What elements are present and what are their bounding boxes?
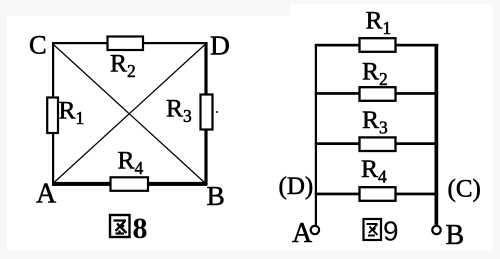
caption 图8 glyph — [110, 215, 130, 237]
resistor R1 (box on left edge) — [47, 98, 58, 134]
svg-text:B: B — [446, 220, 465, 251]
wire D-B (right edge of square) — [204, 42, 207, 185]
wire right rail (bold) — [435, 44, 439, 226]
wire left rail — [315, 44, 317, 226]
diagonal wire A-D — [54, 45, 205, 183]
wire C-D (top edge of square) — [52, 42, 207, 44]
wire rung 4 — [315, 193, 438, 196]
resistor R4 (fourth rung) — [360, 187, 396, 201]
resistor R3 (box on right edge) — [201, 95, 213, 130]
svg-text:8: 8 — [133, 212, 148, 245]
diagonal wire C-B — [54, 45, 205, 183]
wire rung 3 — [315, 142, 438, 145]
resistor R2 (second rung) — [360, 87, 396, 101]
svg-text:A: A — [292, 218, 313, 249]
terminal B (circle) — [432, 226, 440, 234]
svg-text:9: 9 — [383, 216, 399, 247]
wire A-B (bottom edge of square, bold) — [52, 182, 207, 186]
svg-text:B: B — [207, 180, 225, 211]
svg-text:(D): (D) — [279, 173, 314, 200]
terminal A (circle) — [311, 226, 319, 234]
svg-text:(C): (C) — [448, 176, 481, 203]
resistor R1 (top rung) — [360, 38, 396, 52]
resistor R2 (box on top edge) — [108, 37, 144, 51]
resistor R4 (box on bottom edge) — [111, 177, 149, 191]
wire rung 1 — [315, 44, 438, 47]
svg-text:A: A — [36, 179, 57, 210]
svg-text:C: C — [29, 30, 47, 60]
svg-text:D: D — [210, 30, 230, 61]
resistor R3 (third rung) — [360, 137, 396, 151]
wire C-A (left edge of square) — [52, 42, 54, 185]
caption 图9 glyph — [364, 219, 382, 240]
stray dot right of R3 — [216, 111, 218, 113]
wire rung 2 — [315, 92, 438, 95]
